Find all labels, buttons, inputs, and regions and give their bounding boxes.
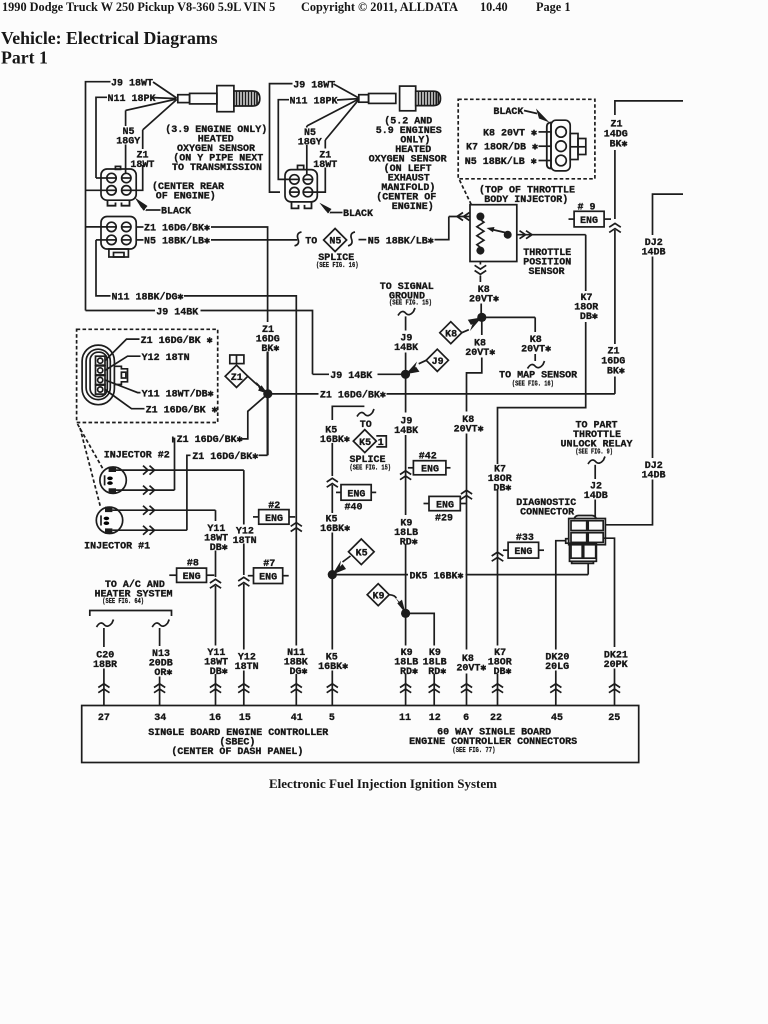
K5 diamond pointer xyxy=(332,539,374,575)
svg-text:18TN: 18TN xyxy=(233,536,257,547)
wire N11 18PK (sensor 2) xyxy=(278,96,359,179)
wire Z1 18WT (sensor 2) xyxy=(313,100,359,193)
throttle position sensor box xyxy=(470,205,571,278)
svg-text:18BR: 18BR xyxy=(93,660,117,671)
N5 splice symbol row xyxy=(295,217,449,270)
svg-text:K8: K8 xyxy=(445,329,457,340)
svg-text:BK✱: BK✱ xyxy=(609,140,627,151)
wire N13 20DB OR* (to pin 34) xyxy=(149,628,173,706)
connector sensor 2 (4-pin) xyxy=(285,165,317,208)
svg-text:1: 1 xyxy=(378,438,384,449)
wire Z1 16DG/BK* horizontal row xyxy=(268,390,615,402)
svg-text:20LG: 20LG xyxy=(545,662,569,673)
svg-text:N5 18BK/LB✱: N5 18BK/LB✱ xyxy=(368,235,434,247)
pin row break symbols xyxy=(98,684,620,693)
svg-text:(SEE FIG. 64): (SEE FIG. 64) xyxy=(102,598,144,606)
injector connector (oval 4-pin) xyxy=(82,345,127,405)
svg-text:14BK: 14BK xyxy=(394,343,418,354)
svg-text:16BK✱: 16BK✱ xyxy=(320,435,350,446)
wire DK21 20PK (to pin 25) xyxy=(603,538,628,705)
svg-text:45: 45 xyxy=(551,713,563,724)
svg-text:(SEE FIG. 77): (SEE FIG. 77) xyxy=(452,747,495,755)
oxygen sensor 2 (5.2/5.9 engines) symbol xyxy=(359,86,441,111)
svg-text:J9 18WT: J9 18WT xyxy=(293,80,335,91)
svg-text:27: 27 xyxy=(98,713,110,724)
wire label K7 18OR DB* (pin 22) xyxy=(486,646,514,679)
svg-text:Z1 16DG/BK✱: Z1 16DG/BK✱ xyxy=(192,451,258,463)
dashed leader lines to injectors xyxy=(78,424,103,508)
wire Z1 16DG/BK* (injector 1 branch) xyxy=(187,451,268,530)
svg-text:N11 18BK/DG✱: N11 18BK/DG✱ xyxy=(112,292,184,304)
svg-text:RD✱: RD✱ xyxy=(428,667,446,678)
wire label K8 20VT* (pin 6) xyxy=(456,650,486,675)
svg-text:J9 18WT: J9 18WT xyxy=(111,79,153,90)
svg-text:N5 18BK/LB✱: N5 18BK/LB✱ xyxy=(144,235,210,247)
TPS bottom wire (K8) xyxy=(469,262,499,318)
wire Y11 18WT/DB* (injector 1 to pin 16) xyxy=(203,510,229,705)
svg-text:10.40: 10.40 xyxy=(480,0,508,14)
svg-text:ENG: ENG xyxy=(347,489,365,500)
wire DJ2 14DB (right) xyxy=(605,194,683,525)
svg-text:Z1: Z1 xyxy=(231,373,243,384)
svg-text:(SEE FIG. 16): (SEE FIG. 16) xyxy=(316,262,359,270)
injector connector pin leader lines and labels xyxy=(105,335,218,417)
throttle body injector connector (3 circle) xyxy=(547,120,586,171)
J9 junction dot xyxy=(394,370,418,614)
svg-text:Part 1: Part 1 xyxy=(1,48,48,68)
svg-text:20VT✱: 20VT✱ xyxy=(456,664,486,675)
svg-text:BK✱: BK✱ xyxy=(261,344,279,355)
ENG #7 box xyxy=(248,559,289,583)
svg-text:OR✱: OR✱ xyxy=(154,668,172,679)
svg-text:Z1 16DG/BK✱: Z1 16DG/BK✱ xyxy=(144,223,210,235)
svg-text:N11 18PK: N11 18PK xyxy=(108,94,156,105)
text (TOP OF THROTTLE BODY INJECTOR) xyxy=(460,180,576,206)
svg-text:Z1 16DG/BK ✱: Z1 16DG/BK ✱ xyxy=(146,404,218,416)
svg-text:(SEE FIG. 15): (SEE FIG. 15) xyxy=(350,465,392,473)
svg-text:15: 15 xyxy=(239,713,251,724)
wire labels K9 18LB RD* (pins 11,12) xyxy=(394,646,449,679)
wire Z1 18WT (sensor 1) xyxy=(130,100,176,191)
svg-text:25: 25 xyxy=(608,713,620,724)
K8 wire down to pin 6 xyxy=(454,317,496,705)
wire N5 18BK/LB* from connector C2 to splice xyxy=(136,235,297,247)
label BLACK (sensor 1 connector) xyxy=(135,198,191,218)
svg-text:18GY: 18GY xyxy=(116,137,140,148)
svg-text:ENG: ENG xyxy=(265,514,283,525)
ENG #42 box xyxy=(400,451,451,479)
svg-text:18GY: 18GY xyxy=(298,137,322,148)
svg-text:(CENTER OF DASH PANEL): (CENTER OF DASH PANEL) xyxy=(171,746,303,758)
svg-text:1990 Dodge Truck W 250 Pickup: 1990 Dodge Truck W 250 Pickup V8-360 5.9… xyxy=(2,0,275,14)
svg-text:RD✱: RD✱ xyxy=(400,667,418,678)
svg-text:DG✱: DG✱ xyxy=(289,667,307,678)
wire Z1 16DG/BK* (injector 2 branch) xyxy=(173,394,268,490)
injector #2 xyxy=(100,451,244,495)
wire N11 18BK/DG* (sensor1 C2 to pin 41) xyxy=(96,240,296,706)
page title xyxy=(1,28,218,68)
label BLACK (sensor 2 connector) xyxy=(320,203,374,220)
svg-text:(SEE FIG. 16): (SEE FIG. 16) xyxy=(512,380,554,388)
svg-text:Y11 18WT/DB✱: Y11 18WT/DB✱ xyxy=(142,388,214,400)
TPS left wire to N5 (with chevrons) xyxy=(449,213,470,221)
svg-text:DB✱: DB✱ xyxy=(493,667,511,678)
svg-text:N5 18BK/LB ✱: N5 18BK/LB ✱ xyxy=(465,156,537,168)
svg-text:SENSOR: SENSOR xyxy=(529,267,565,278)
TO A/C AND HEATER SYSTEM xyxy=(90,579,173,627)
K5 wire down xyxy=(320,424,351,706)
svg-text:20VT✱: 20VT✱ xyxy=(469,294,499,305)
svg-text:20VT✱: 20VT✱ xyxy=(465,348,495,359)
TPS right wire (K7) xyxy=(498,231,599,706)
K8 diamond pointer xyxy=(440,317,482,343)
svg-text:Z1 16DG/BK✱: Z1 16DG/BK✱ xyxy=(177,434,243,446)
svg-text:ENG: ENG xyxy=(514,547,532,558)
ENG #40 box xyxy=(336,485,376,514)
wire Y12 18TN (injector 2 to pin 15) xyxy=(232,470,259,705)
svg-text:Y12 18TN: Y12 18TN xyxy=(142,353,190,364)
svg-text:20VT✱: 20VT✱ xyxy=(454,424,484,435)
svg-text:J9: J9 xyxy=(432,357,444,368)
svg-text:ENG: ENG xyxy=(183,572,201,583)
svg-text:K5: K5 xyxy=(359,438,371,449)
svg-text:41: 41 xyxy=(291,713,303,724)
svg-text:BK✱: BK✱ xyxy=(607,367,625,378)
wire label Y11 18WT DB* (pin 16) xyxy=(202,646,230,679)
svg-text:BLACK: BLACK xyxy=(343,209,373,220)
wire N5 18GY (sensor 1) xyxy=(116,99,176,173)
Z1 junction and main vertical xyxy=(255,323,281,456)
svg-text:RD✱: RD✱ xyxy=(400,537,418,548)
svg-text:ENG: ENG xyxy=(580,216,598,227)
svg-text:22: 22 xyxy=(490,713,502,724)
svg-text:TO TRANSMISSION: TO TRANSMISSION xyxy=(172,163,262,174)
svg-text:TO: TO xyxy=(360,420,372,431)
Z1 flag symbol xyxy=(225,355,268,394)
wire C20 18BR (to pin 27) xyxy=(93,628,117,706)
svg-text:(SEE FIG. 9): (SEE FIG. 9) xyxy=(575,448,613,456)
K9 junction xyxy=(394,515,434,706)
svg-text:ENG: ENG xyxy=(259,573,277,584)
svg-text:Page 1: Page 1 xyxy=(536,0,571,14)
svg-text:BLACK: BLACK xyxy=(493,107,523,118)
injector #1 xyxy=(84,506,215,553)
wire J9 14BK (horizontal row) xyxy=(86,307,406,382)
svg-text:Z1 16DG/BK✱: Z1 16DG/BK✱ xyxy=(320,390,386,402)
text (CENTER REAR OF ENGINE) xyxy=(152,181,224,203)
wire J9 18WT (sensor 1) xyxy=(86,79,177,311)
text (3.9 ENGINE ONLY) heated oxygen sensor xyxy=(165,124,267,174)
wire label K5 16BK* (pin 5) xyxy=(318,650,351,674)
svg-text:6: 6 xyxy=(463,713,469,724)
svg-text:DK5 16BK✱: DK5 16BK✱ xyxy=(410,571,464,582)
ENG #2 box xyxy=(253,501,302,532)
svg-text:BLACK: BLACK xyxy=(161,207,191,218)
svg-text:TO: TO xyxy=(305,237,317,248)
J9 diamond pointer xyxy=(406,349,449,374)
svg-text:(SEE FIG. 15): (SEE FIG. 15) xyxy=(389,300,432,308)
wire Z1 16DG/BK* from connector C2 xyxy=(136,223,267,322)
wire J9 18WT (sensor 2) xyxy=(270,80,359,192)
svg-text:DB✱: DB✱ xyxy=(580,312,598,323)
SBEC / 60-way connector box xyxy=(82,706,639,763)
svg-text:#29: #29 xyxy=(435,514,453,525)
svg-text:34: 34 xyxy=(154,713,166,724)
connector C2 sensor 1 (4-pin) xyxy=(86,217,137,258)
svg-text:ENG: ENG xyxy=(421,465,439,476)
throttle body injector dashed box xyxy=(458,99,595,179)
wire N11 18PK (sensor 1) xyxy=(96,94,177,178)
svg-text:N11 18PK: N11 18PK xyxy=(290,96,338,107)
svg-text:Electronic Fuel Injection Igni: Electronic Fuel Injection Ignition Syste… xyxy=(269,776,497,791)
svg-text:12: 12 xyxy=(429,713,441,724)
svg-text:#40: #40 xyxy=(344,502,362,513)
wire label N11 18BK DG* (pin 41) xyxy=(282,646,310,679)
K7 label (mid) xyxy=(486,464,513,495)
svg-text:INJECTOR #2: INJECTOR #2 xyxy=(104,451,170,462)
header row xyxy=(2,0,571,14)
svg-text:14DB: 14DB xyxy=(641,471,665,482)
svg-text:14DB: 14DB xyxy=(641,247,665,258)
svg-text:11: 11 xyxy=(399,713,411,724)
wiper arrow xyxy=(492,230,505,233)
svg-text:K9: K9 xyxy=(372,591,384,602)
wire label DK20 20LG (pin 45) xyxy=(542,650,572,674)
svg-text:ENGINE): ENGINE) xyxy=(392,201,434,213)
ENG #29 box xyxy=(424,490,473,524)
TO SIGNAL GROUND (J9) xyxy=(380,282,434,375)
DK5 16BK* wire xyxy=(332,563,588,582)
wire N5 18GY (sensor 2) xyxy=(298,99,359,175)
K5 splice stub xyxy=(332,406,391,472)
svg-text:K8 20VT ✱: K8 20VT ✱ xyxy=(483,128,537,139)
oxygen sensor 1 (3.9 engine) symbol xyxy=(178,86,260,112)
svg-text:INJECTOR #1: INJECTOR #1 xyxy=(84,542,150,553)
svg-text:ENG: ENG xyxy=(436,501,454,512)
injector connector dashed box xyxy=(77,329,218,422)
svg-text:16BK✱: 16BK✱ xyxy=(318,662,348,673)
svg-text:18WT: 18WT xyxy=(313,160,337,171)
wire label Y12 18TN (pin 15) xyxy=(232,650,260,674)
K8 upper label and junction xyxy=(477,313,577,389)
ENG #8 box xyxy=(169,559,214,584)
DIAGNOSTIC CONNECTOR text xyxy=(516,498,576,519)
svg-text:Copyright © 2011, ALLDATA: Copyright © 2011, ALLDATA xyxy=(301,0,458,14)
resistor zigzag xyxy=(477,220,484,248)
diagnostic connector symbol xyxy=(566,516,606,564)
wire DK20 20LG (to pin 45) xyxy=(556,541,566,706)
K9 diamond pointer xyxy=(367,584,405,614)
svg-text:DB✱: DB✱ xyxy=(210,667,228,678)
svg-text:16BK✱: 16BK✱ xyxy=(320,524,350,535)
ENG #33 box xyxy=(492,533,544,561)
ENG # 9 box xyxy=(569,202,612,227)
svg-text:18TN: 18TN xyxy=(235,662,259,673)
svg-text:Z1 16DG/BK ✱: Z1 16DG/BK ✱ xyxy=(141,335,213,347)
svg-text:K5: K5 xyxy=(356,549,368,560)
svg-text:J9 14BK: J9 14BK xyxy=(156,307,198,318)
TO PART THROTTLE UNLOCK RELAY (J2) xyxy=(560,420,632,517)
svg-text:16: 16 xyxy=(209,713,221,724)
svg-text:N5: N5 xyxy=(329,237,341,248)
svg-text:DB✱: DB✱ xyxy=(210,543,228,554)
svg-text:Vehicle: Electrical Diagrams: Vehicle: Electrical Diagrams xyxy=(1,28,218,48)
svg-text:DB✱: DB✱ xyxy=(493,484,511,495)
wire Z1 14DG BK* (right side, top) xyxy=(601,101,683,394)
svg-text:J9 14BK: J9 14BK xyxy=(330,371,372,382)
svg-text:CONNECTOR: CONNECTOR xyxy=(520,507,574,518)
text (5.2 AND 5.9 ENGINES ONLY) heated oxygen sensor xyxy=(369,116,447,214)
svg-text:20VT✱: 20VT✱ xyxy=(521,345,551,356)
svg-text:5: 5 xyxy=(329,713,335,724)
svg-text:K7 18OR/DB ✱: K7 18OR/DB ✱ xyxy=(466,142,538,154)
svg-text:20PK: 20PK xyxy=(604,660,628,671)
svg-text:OF ENGINE): OF ENGINE) xyxy=(156,191,216,203)
connector C1 sensor 1 (4-pin) xyxy=(86,166,137,205)
